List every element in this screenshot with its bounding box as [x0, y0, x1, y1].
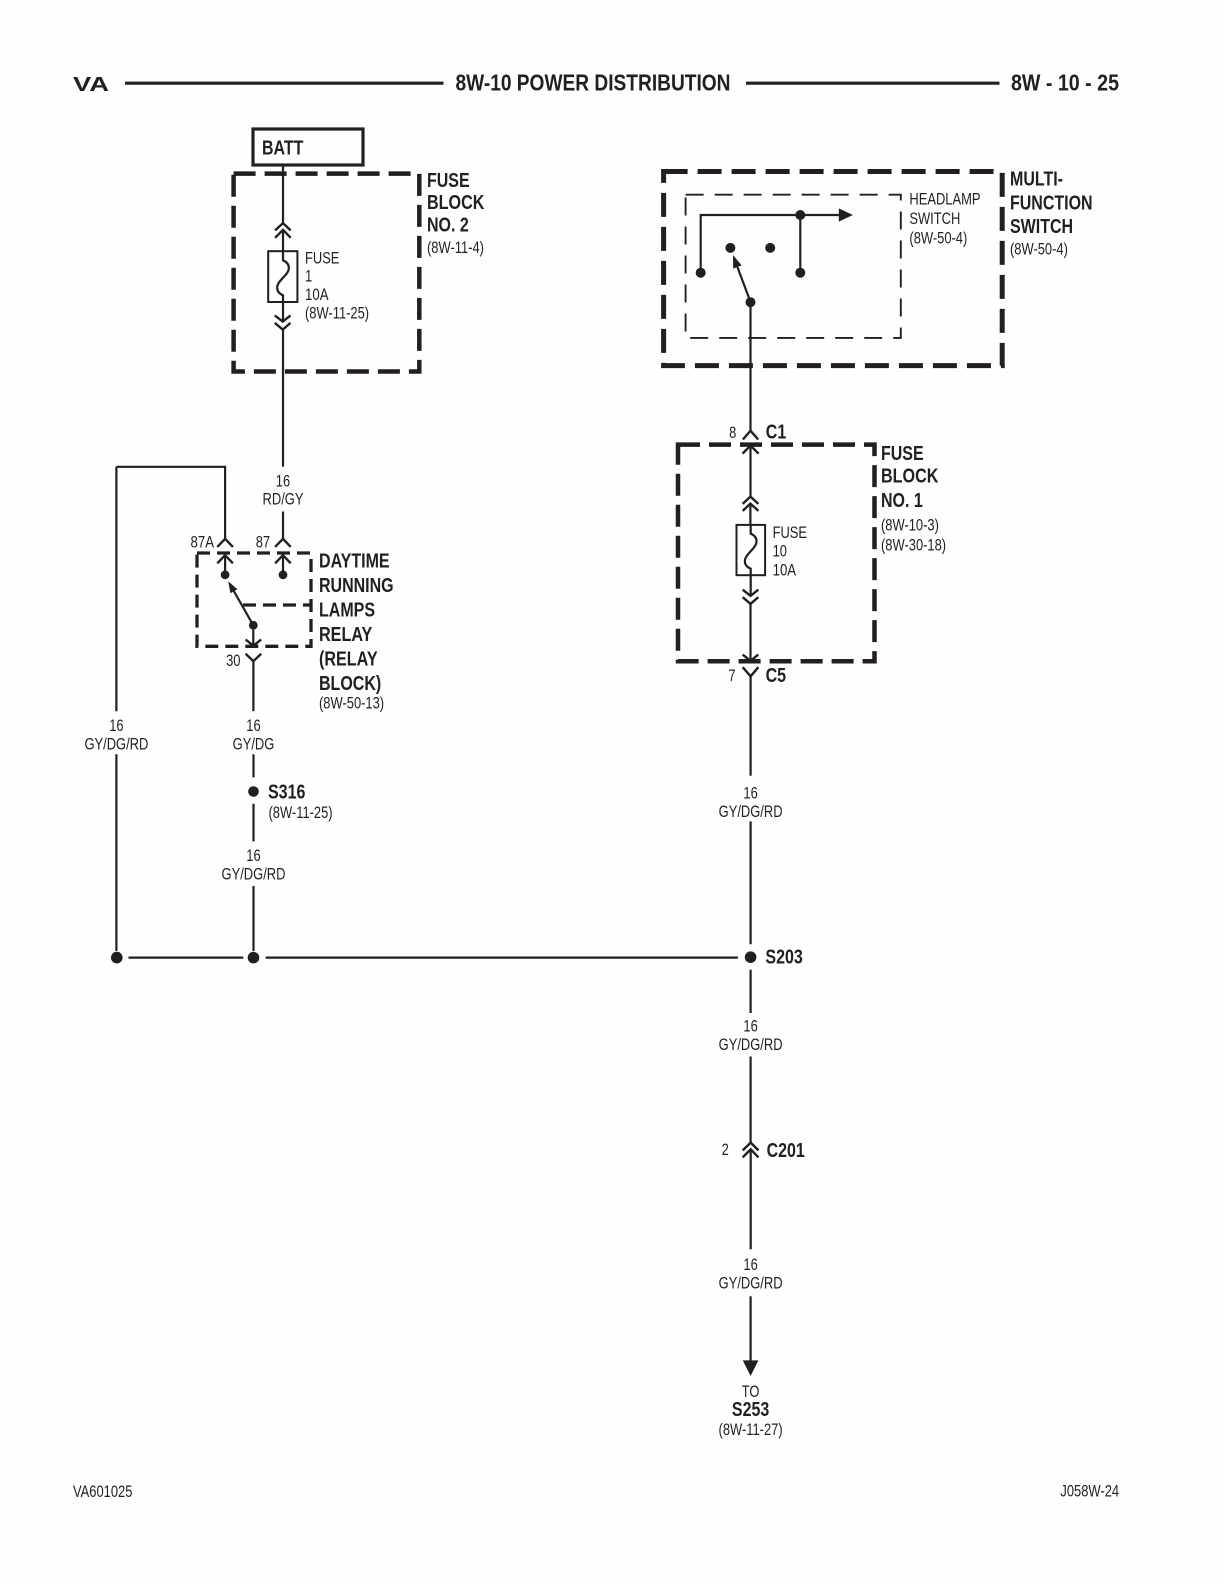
battery feed box BATT — [253, 129, 363, 165]
wire S203 bus right — [266, 956, 738, 958]
headlamp switch inner dashed box — [686, 195, 901, 338]
svg-text:FUNCTION: FUNCTION — [1010, 192, 1093, 214]
svg-text:7: 7 — [728, 667, 735, 685]
wire fuse 10 to chevrons — [750, 575, 752, 596]
svg-text:DAYTIME: DAYTIME — [319, 551, 390, 573]
svg-text:(8W-30-18): (8W-30-18) — [881, 535, 946, 554]
wire pin 30 down — [252, 661, 254, 711]
fuse F1 body — [268, 251, 297, 302]
fuse F1 element — [277, 251, 289, 302]
svg-text:10A: 10A — [305, 285, 329, 304]
svg-text:GY/DG/RD: GY/DG/RD — [719, 1035, 783, 1054]
svg-text:SWITCH: SWITCH — [1010, 216, 1073, 238]
svg-text:BLOCK: BLOCK — [427, 192, 485, 214]
svg-text:16: 16 — [276, 472, 290, 491]
wire relay common to pin 30 — [252, 630, 254, 646]
svg-text:87: 87 — [256, 533, 270, 552]
fuse F10 element — [745, 525, 757, 575]
headlamp switch feed line with arrow — [701, 215, 839, 273]
svg-text:BATT: BATT — [262, 138, 303, 160]
svg-text:16: 16 — [246, 716, 260, 735]
svg-text:SWITCH: SWITCH — [909, 209, 960, 228]
wire chevron to fuse 1 — [282, 230, 284, 251]
fuse block no.1 dashed box — [678, 445, 875, 662]
connector chevrons below fuse 10 — [743, 590, 759, 596]
wire headlamp switch to C1 — [749, 302, 751, 431]
svg-text:GY/DG/RD: GY/DG/RD — [84, 735, 148, 754]
wire C1 to chevrons — [749, 446, 751, 497]
wire fuse 1 to chevrons — [282, 302, 284, 322]
svg-text:C5: C5 — [766, 665, 787, 687]
wire left branch down — [115, 467, 117, 711]
svg-text:NO. 2: NO. 2 — [427, 215, 469, 237]
header rule right — [746, 82, 1000, 85]
wire branch to 87A — [116, 467, 225, 539]
svg-text:VA601025: VA601025 — [73, 1482, 132, 1501]
svg-text:(8W-50-4): (8W-50-4) — [1010, 240, 1068, 259]
svg-text:87A: 87A — [191, 533, 215, 552]
wire S316 down — [252, 804, 254, 842]
svg-text:GY/DG/RD: GY/DG/RD — [222, 865, 286, 884]
svg-text:GY/DG/RD: GY/DG/RD — [719, 1273, 783, 1292]
svg-text:1: 1 — [305, 267, 312, 286]
svg-text:S316: S316 — [268, 782, 305, 804]
svg-text:8W - 10 - 25: 8W - 10 - 25 — [1011, 70, 1119, 96]
svg-text:(8W-11-25): (8W-11-25) — [305, 304, 369, 323]
svg-text:GY/DG: GY/DG — [233, 735, 275, 754]
svg-text:FUSE: FUSE — [427, 170, 470, 192]
svg-text:VA: VA — [73, 74, 109, 96]
fuse F10 body — [737, 525, 766, 575]
splice S316 — [248, 786, 259, 797]
svg-text:J058W-24: J058W-24 — [1060, 1482, 1119, 1501]
wire S203 bus left — [129, 956, 244, 958]
svg-text:BLOCK): BLOCK) — [319, 673, 381, 695]
arrow to S253 — [743, 1360, 759, 1376]
wire to S316 — [252, 754, 254, 777]
daytime running lamps relay dashed box — [197, 553, 311, 646]
svg-text:(8W-11-4): (8W-11-4) — [427, 238, 484, 257]
wire chevron to fuse 10 — [749, 504, 751, 525]
wire label to pin 87 — [282, 512, 284, 539]
connector C1 — [743, 431, 758, 440]
multi-function switch dashed box — [664, 172, 1003, 366]
svg-text:16: 16 — [743, 784, 757, 803]
wire to S203 row — [252, 886, 254, 951]
svg-text:LAMPS: LAMPS — [319, 600, 375, 622]
splice S203 junction dots — [111, 952, 123, 964]
connector C5 — [743, 667, 759, 676]
svg-text:GY/DG/RD: GY/DG/RD — [719, 802, 783, 821]
svg-text:FUSE: FUSE — [881, 443, 924, 465]
wire fuse block 2 to label 16 RD/GY — [282, 330, 284, 467]
svg-text:FUSE: FUSE — [305, 249, 339, 268]
wire to arrow — [749, 1296, 751, 1362]
pin 87A connector — [217, 539, 233, 547]
svg-text:10: 10 — [773, 542, 787, 561]
svg-text:BLOCK: BLOCK — [881, 465, 939, 487]
svg-text:16: 16 — [743, 1255, 757, 1274]
svg-text:2: 2 — [722, 1141, 729, 1159]
relay armature — [234, 591, 254, 626]
svg-text:16: 16 — [246, 846, 260, 865]
svg-text:(8W-50-13): (8W-50-13) — [319, 694, 384, 713]
svg-text:(RELAY: (RELAY — [319, 649, 378, 671]
svg-text:8W-10 POWER DISTRIBUTION: 8W-10 POWER DISTRIBUTION — [456, 70, 731, 96]
relay contact 87 — [279, 570, 288, 579]
connector C5 crossing chevron — [743, 655, 759, 661]
svg-text:RD/GY: RD/GY — [263, 490, 304, 509]
svg-text:S203: S203 — [765, 947, 802, 969]
svg-text:(8W-50-4): (8W-50-4) — [909, 229, 967, 248]
headlamp switch wiper — [746, 297, 756, 307]
svg-text:RUNNING: RUNNING — [319, 575, 394, 597]
svg-text:MULTI-: MULTI- — [1010, 169, 1063, 191]
svg-text:C1: C1 — [766, 422, 787, 444]
headlamp switch node dots — [696, 268, 706, 278]
svg-text:(8W-10-3): (8W-10-3) — [881, 516, 939, 535]
connector chevrons above fuse 1 — [275, 223, 291, 230]
connector C201 — [743, 1143, 759, 1151]
connector C1 inner chevron — [743, 446, 759, 454]
svg-text:16: 16 — [743, 1017, 757, 1036]
relay internal divider — [243, 603, 311, 606]
wire C5 to S203 — [749, 821, 751, 944]
svg-text:30: 30 — [226, 651, 240, 670]
svg-text:16: 16 — [109, 716, 123, 735]
svg-text:HEADLAMP: HEADLAMP — [909, 190, 980, 209]
svg-text:RELAY: RELAY — [319, 624, 373, 646]
wire left branch to S203 — [115, 754, 117, 951]
wire to C201 — [749, 1057, 751, 1143]
wire S203 down — [749, 970, 751, 1013]
relay contact 87A — [221, 570, 230, 579]
svg-text:S253: S253 — [732, 1399, 769, 1421]
header rule left — [125, 82, 444, 85]
svg-text:8: 8 — [729, 424, 736, 442]
pin 87 connector — [275, 539, 291, 547]
svg-text:(8W-11-27): (8W-11-27) — [719, 1420, 783, 1439]
svg-text:10A: 10A — [773, 561, 797, 580]
svg-text:C201: C201 — [767, 1140, 805, 1162]
relay common contact — [249, 621, 258, 630]
svg-text:NO. 1: NO. 1 — [881, 490, 923, 512]
fuse block no.2 dashed box — [234, 174, 420, 372]
svg-text:(8W-11-25): (8W-11-25) — [269, 803, 333, 822]
wire to C5 — [749, 604, 751, 661]
wire C201 down — [750, 1149, 752, 1249]
wire BATT to fuse block 2 — [282, 165, 284, 223]
pin 30 crossing chevron — [246, 640, 262, 646]
connector chevrons above fuse 10 — [743, 497, 759, 504]
connector chevrons below fuse 1 — [275, 315, 291, 321]
svg-text:FUSE: FUSE — [773, 523, 807, 542]
pin 30 connector — [246, 654, 262, 661]
